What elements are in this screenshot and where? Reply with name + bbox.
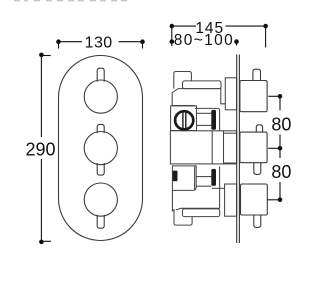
lower wall nut B3 <box>225 184 237 216</box>
handle 1 top tab <box>253 69 261 80</box>
middle body section <box>170 131 236 164</box>
svg-text:290: 290 <box>25 140 55 160</box>
knob 1 circle <box>84 80 117 113</box>
dimension 290 line <box>41 55 51 242</box>
svg-text:80: 80 <box>271 114 291 134</box>
dimension 290 end dots <box>39 53 44 58</box>
dimension 130 end dots <box>56 39 61 44</box>
temperature knob ring <box>175 111 193 129</box>
knob 2 bottom tab <box>97 163 104 175</box>
faceplate stadium outline <box>59 56 143 241</box>
upper wall nut B1 <box>225 78 236 110</box>
svg-text:80: 80 <box>271 162 291 182</box>
right dimension dots <box>278 94 283 99</box>
handle 2 bottom tab <box>254 162 261 174</box>
bottom union bar <box>182 209 219 217</box>
dimension 80~100 end dots <box>170 39 175 44</box>
cartridge stem lines (top) <box>197 112 212 114</box>
middle wall nut B2 edges <box>224 132 237 134</box>
knob 1 top tab <box>97 68 104 82</box>
lower body outline <box>172 190 219 211</box>
dimension 145 line <box>172 26 266 47</box>
knob 2 top tab <box>97 124 104 133</box>
cartridge stem lines (bottom) <box>196 176 211 178</box>
knob 3 circle <box>84 183 117 216</box>
handle 2 top tab <box>256 125 262 132</box>
wall plate edge lines <box>236 55 238 244</box>
dark seal bar (bottom cartridge) <box>211 169 216 186</box>
knob 3 bottom tab <box>97 215 104 229</box>
thermostat knob housing <box>171 106 197 131</box>
bottom mounting block <box>174 209 192 225</box>
dimension 145 end dots <box>170 24 175 29</box>
upper cartridge outline <box>195 108 220 130</box>
right dimension 80/80 lines <box>268 96 281 200</box>
dimension 130 line <box>59 42 143 49</box>
cartridge right edge (bottom) <box>219 166 221 208</box>
handle 3 body <box>241 184 268 215</box>
temperature knob slot <box>182 112 184 129</box>
knob 2 circle <box>84 132 117 165</box>
dark screw (lower housing) <box>173 171 178 182</box>
cropped title text remnants at top <box>14 0 127 1</box>
top-left mounting block <box>174 72 192 89</box>
upper body block <box>172 89 225 106</box>
handle 2 body <box>240 132 267 163</box>
handle 1 body <box>240 81 267 112</box>
handle 3 bottom tab <box>254 215 261 227</box>
lower housing box <box>172 166 196 191</box>
svg-text:130: 130 <box>85 34 113 51</box>
top union bar <box>183 81 222 89</box>
dark seal bar (top cartridge) <box>211 110 216 130</box>
svg-text:80~100: 80~100 <box>174 32 234 49</box>
